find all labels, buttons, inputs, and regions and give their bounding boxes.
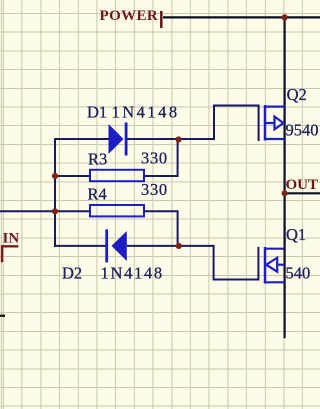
svg-text:1N4148: 1N4148 [112,103,180,122]
wire R4 right down to D2 node [143,211,178,245]
wire main vertical drain-source rail [284,16,286,338]
node D1-R3 junction [176,136,182,142]
wire D2 anode to Q1 gate [127,246,258,280]
port IN shape (clipped) [2,246,18,262]
wire D1 row left [54,138,109,140]
svg-text:Q1: Q1 [286,225,306,244]
wire R3 right up to D1 node [143,140,178,176]
svg-text:Q2: Q2 [287,85,307,104]
svg-text:POWER: POWER [100,8,159,24]
svg-text:D2: D2 [62,264,82,283]
wire D1 cathode to Q2 gate [127,106,259,142]
junction dot top rail [282,14,288,20]
svg-text:330: 330 [141,149,168,168]
svg-text:9540: 9540 [286,121,319,140]
transistor Q1 (N-MOSFET) [265,247,285,284]
resistor R4 [90,205,144,216]
junction dot OUT node [282,190,288,196]
wire left rail vertical [54,139,56,248]
wire R4 row left [55,210,91,212]
svg-text:OUT: OUT [286,177,319,193]
wire IN horizontal [0,210,55,212]
svg-text:330: 330 [141,180,168,199]
wire R3 row left [55,175,91,177]
resistor R3 [90,170,144,181]
junction dot rail-R3 [52,173,58,179]
stray clipped mark left edge [0,315,5,318]
svg-text:R4: R4 [88,185,107,204]
diode D2 [105,229,127,262]
svg-text:1N4148: 1N4148 [101,264,164,283]
port POWER edge bar [160,11,162,28]
wire OUT stub [285,192,320,194]
transistor Q2 (P-MOSFET) [265,105,285,141]
wire POWER rail top horizontal [163,16,320,18]
svg-text:R3: R3 [88,150,107,169]
svg-text:IN: IN [3,231,20,247]
svg-text:D1: D1 [87,103,107,122]
node D2-R4 junction [176,243,182,249]
wire D2 row left [54,245,106,247]
svg-text:540: 540 [286,264,311,283]
junction dot rail-R4-IN [52,208,58,214]
diode D1 [109,123,128,156]
